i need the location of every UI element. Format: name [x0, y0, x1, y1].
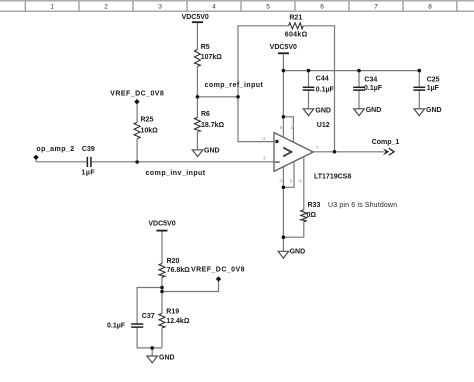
svg-text:C39: C39 [82, 146, 95, 153]
svg-text:1: 1 [50, 4, 54, 11]
svg-text:GND: GND [159, 354, 175, 361]
svg-text:7: 7 [374, 4, 378, 11]
svg-text:10kΩ: 10kΩ [141, 128, 159, 135]
svg-text:R20: R20 [167, 258, 180, 265]
svg-text:C44: C44 [316, 75, 329, 82]
svg-text:R21: R21 [289, 14, 302, 21]
svg-text:5: 5 [266, 4, 270, 11]
svg-text:comp_ref_input: comp_ref_input [205, 82, 264, 89]
svg-text:VREF_DC_0V8: VREF_DC_0V8 [191, 267, 245, 274]
svg-text:R25: R25 [141, 117, 154, 124]
svg-text:76.8kΩ: 76.8kΩ [167, 267, 191, 274]
svg-text:C37: C37 [142, 313, 155, 320]
svg-text:U12: U12 [317, 122, 330, 129]
svg-text:comp_inv_input: comp_inv_input [146, 170, 206, 177]
svg-text:VDC5V0: VDC5V0 [182, 14, 209, 21]
svg-text:R33: R33 [308, 202, 321, 209]
svg-text:GND: GND [290, 248, 306, 255]
svg-text:1µF: 1µF [82, 169, 96, 176]
svg-text:GND: GND [366, 107, 382, 114]
svg-text:8: 8 [428, 4, 432, 11]
svg-text:18.7kΩ: 18.7kΩ [201, 122, 225, 129]
svg-text:0.1µF: 0.1µF [316, 87, 335, 94]
svg-text:R6: R6 [201, 111, 210, 118]
svg-text:GND: GND [315, 108, 331, 115]
svg-text:6: 6 [320, 4, 324, 11]
svg-text:604kΩ: 604kΩ [285, 31, 308, 38]
svg-text:VDC5V0: VDC5V0 [270, 44, 297, 51]
svg-text:VDC5V0: VDC5V0 [148, 221, 175, 228]
svg-text:op_amp_2: op_amp_2 [36, 146, 74, 153]
svg-text:12.4kΩ: 12.4kΩ [166, 318, 190, 325]
svg-text:0.1µF: 0.1µF [364, 85, 383, 92]
svg-text:3: 3 [158, 4, 162, 11]
svg-text:4: 4 [212, 4, 216, 11]
svg-text:107kΩ: 107kΩ [201, 54, 223, 61]
svg-text:1µF: 1µF [427, 85, 440, 92]
svg-text:0Ω: 0Ω [307, 212, 317, 219]
svg-text:C34: C34 [364, 76, 377, 83]
svg-text:VREF_DC_0V8: VREF_DC_0V8 [110, 90, 164, 97]
svg-text:Comp_1: Comp_1 [372, 139, 400, 146]
svg-text:GND: GND [204, 148, 220, 155]
svg-text:GND: GND [426, 107, 442, 114]
svg-text:2: 2 [104, 4, 108, 11]
svg-text:C25: C25 [427, 76, 440, 83]
svg-text:0.1µF: 0.1µF [107, 322, 126, 329]
svg-text:R19: R19 [166, 308, 179, 315]
svg-text:R5: R5 [201, 44, 210, 51]
svg-text:LT1719CS8: LT1719CS8 [314, 174, 351, 181]
svg-text:U3 pin 6 is Shutdown: U3 pin 6 is Shutdown [328, 202, 397, 209]
